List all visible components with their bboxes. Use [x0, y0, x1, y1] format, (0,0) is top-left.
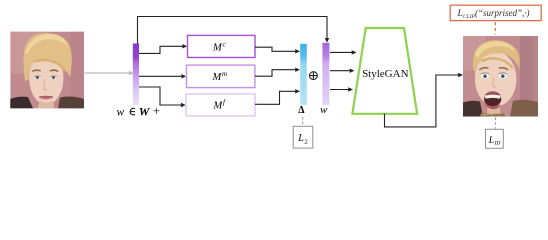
svg-text:L: L — [457, 9, 463, 19]
mapper box Mm — [187, 65, 255, 88]
delta bar — [300, 44, 307, 105]
svg-text:CLIP: CLIP — [463, 14, 476, 20]
loss box Lclip — [450, 5, 541, 20]
svg-text:M: M — [212, 72, 223, 83]
svg-text:2: 2 — [304, 139, 307, 146]
mapper box Mf — [186, 94, 255, 116]
wire Mc to delta — [255, 47, 300, 53]
input image — [9, 32, 84, 109]
label w in W+ — [117, 104, 161, 118]
svg-text:StyleGAN: StyleGAN — [362, 68, 409, 80]
wire latent to Mm — [139, 74, 186, 78]
svg-text:w: w — [117, 106, 125, 118]
wire StyleGAN to output — [385, 73, 464, 127]
svg-text:ID: ID — [494, 141, 501, 147]
dashes delta to L2 — [302, 117, 304, 126]
svg-text:W: W — [139, 104, 151, 118]
svg-text:L: L — [297, 133, 304, 144]
wire latent to Mc — [139, 44, 187, 53]
wire skip top — [138, 17, 330, 44]
svg-text:+: + — [153, 104, 160, 118]
w bar — [322, 43, 329, 105]
oplus — [310, 72, 318, 80]
latent bar w — [133, 44, 139, 106]
dashes Lclip to output — [494, 22, 496, 35]
svg-text:M: M — [212, 43, 223, 54]
StyleGAN generator — [352, 28, 417, 114]
wire Mf to delta — [255, 89, 300, 104]
svg-text:L: L — [488, 136, 494, 146]
svg-text:m: m — [222, 70, 227, 78]
output image — [463, 36, 538, 117]
loss box L2 — [293, 126, 313, 148]
svg-text:Δ: Δ — [298, 105, 305, 116]
svg-text:(“surprised”,·): (“surprised”,·) — [475, 8, 530, 18]
dashes output to Lid — [495, 118, 497, 129]
svg-text:M: M — [213, 101, 224, 112]
loss box Lid — [486, 129, 504, 148]
wire w to StyleGAN 1 — [330, 50, 357, 54]
wire Mm to delta — [255, 68, 300, 77]
wire w to StyleGAN 3 — [330, 87, 353, 91]
wire input to latent — [85, 71, 135, 76]
svg-text:w: w — [320, 104, 328, 116]
mapper box Mc — [188, 35, 256, 57]
wire latent to Mf — [139, 87, 186, 107]
wire w to StyleGAN 2 — [330, 69, 355, 73]
